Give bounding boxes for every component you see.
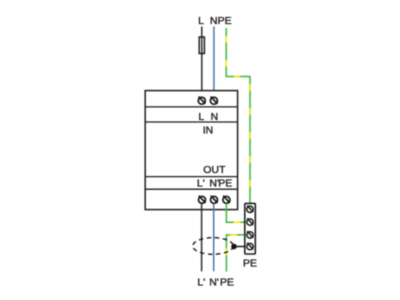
svg-text:L': L' bbox=[197, 178, 205, 190]
svg-text:PE: PE bbox=[243, 258, 257, 270]
svg-text:N: N bbox=[210, 15, 218, 27]
svg-text:PE: PE bbox=[218, 178, 232, 190]
svg-text:IN: IN bbox=[203, 124, 214, 136]
svg-text:L: L bbox=[198, 111, 204, 123]
svg-text:PE: PE bbox=[218, 15, 232, 27]
svg-text:OUT: OUT bbox=[203, 164, 226, 176]
svg-text:L: L bbox=[198, 15, 204, 27]
svg-text:N': N' bbox=[209, 276, 219, 288]
svg-text:L': L' bbox=[197, 276, 205, 288]
svg-text:PE: PE bbox=[220, 276, 234, 288]
svg-text:N: N bbox=[211, 111, 219, 123]
